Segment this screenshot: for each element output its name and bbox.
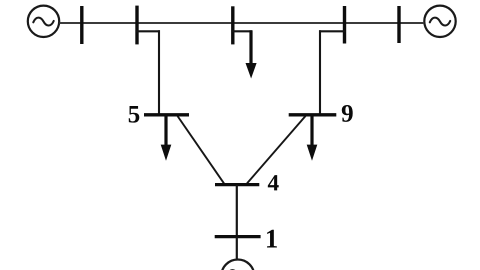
bus bar T4 — [343, 6, 346, 44]
label bus 1 — [267, 230, 277, 248]
load arrow L5 — [161, 114, 172, 161]
wire: drop T2 to bus 5 — [158, 30, 160, 115]
bus bar T3 (middle) — [231, 6, 234, 44]
bus bar 9 — [289, 113, 337, 116]
wire: line bus 9 to bus 4 (diagonal) — [247, 116, 306, 183]
bus bar 4 — [215, 183, 259, 186]
generator G2 (top left) — [28, 6, 59, 37]
generator G1 (bottom, clipped) — [221, 260, 254, 270]
wire: stub from T3 — [232, 30, 252, 32]
wire: top tie line G2 to G3 — [59, 22, 424, 24]
wire: stub from T4 — [319, 30, 346, 32]
bus bar T1 — [80, 6, 83, 44]
bus bar T2 — [135, 6, 138, 45]
wire: bus 1 to G1 — [236, 237, 238, 260]
wire: drop T4 to bus 9 — [319, 30, 321, 115]
bus bar 1 — [215, 235, 261, 238]
wire: line bus 5 to bus 4 (diagonal) — [178, 116, 225, 183]
wire: stub from T2 — [136, 30, 160, 32]
load arrow L9 — [307, 114, 318, 161]
load arrow L8 (center) — [246, 30, 257, 78]
generator G3 (top right) — [424, 6, 455, 37]
bus bar T5 — [397, 6, 400, 43]
label bus 4 — [268, 175, 279, 190]
label bus 5 — [129, 106, 140, 123]
wire: bus 4 to bus 1 — [236, 185, 238, 237]
bus bar 5 — [144, 113, 189, 116]
label bus 9 — [342, 105, 353, 122]
